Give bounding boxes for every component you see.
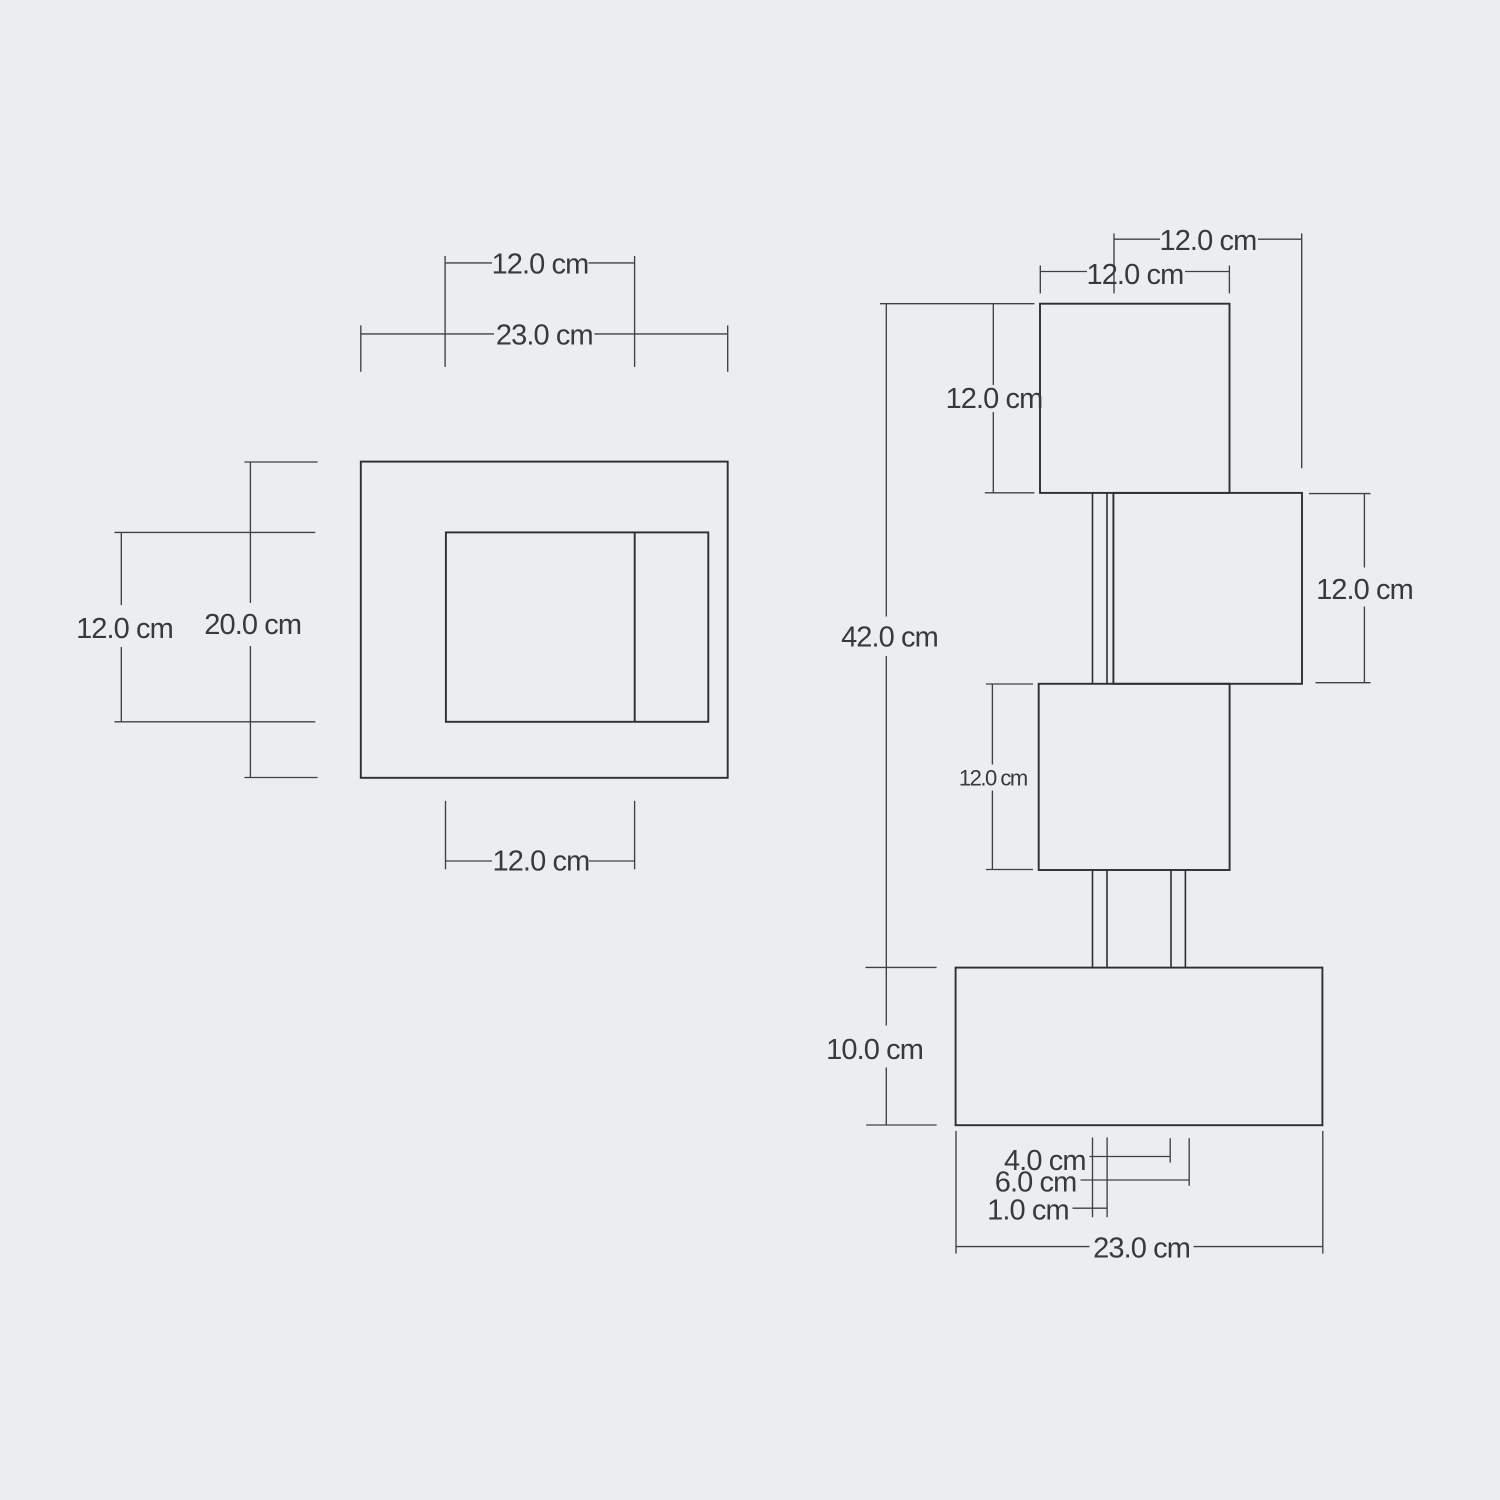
dim: box3 height 12.0 small [991,684,993,765]
svg-text:1.0 cm: 1.0 cm [987,1194,1069,1226]
dim: right top 12.0 (box2 width) [1114,238,1160,240]
svg-text:12.0 cm: 12.0 cm [492,248,589,280]
svg-text:12.0 cm: 12.0 cm [946,383,1043,415]
dim: left 20.0 vertical [249,462,251,603]
svg-text:23.0 cm: 23.0 cm [1093,1232,1190,1264]
dim: 6.0 [1081,1179,1190,1181]
svg-text:12.0 cm: 12.0 cm [959,766,1027,791]
extension lines of legs [1092,1137,1094,1217]
left view: inner rectangle [446,532,708,721]
dim: left 12.0 vertical [120,532,122,605]
dim: right 12.0 (box1 width) [1040,271,1087,273]
dim: left top 12.0 [445,262,492,264]
dim: box1 height 12.0 [992,304,994,385]
svg-text:23.0 cm: 23.0 cm [496,319,593,351]
svg-text:12.0 cm: 12.0 cm [1159,225,1256,257]
dim: 4.0 [1090,1156,1171,1158]
svg-text:12.0 cm: 12.0 cm [1316,574,1413,606]
svg-text:12.0 cm: 12.0 cm [76,613,173,645]
svg-text:12.0 cm: 12.0 cm [492,845,589,877]
left view: inner divider [634,532,636,721]
dim: left bottom 12.0 [446,860,493,862]
svg-text:10.0 cm: 10.0 cm [826,1034,923,1066]
left view: outer rectangle [361,462,728,778]
pole upper segment [1092,493,1094,684]
dim: 10.0 vertical [885,967,887,1025]
right view: base [956,968,1323,1126]
right view: box2 [1113,493,1302,684]
dim: 1.0 [1073,1207,1108,1209]
dim: left 23.0 [361,333,494,335]
left leg [1092,870,1094,968]
right leg [1170,870,1172,968]
right view: box1 [1040,304,1230,493]
svg-text:12.0 cm: 12.0 cm [1086,259,1183,291]
right view: box3 [1039,684,1230,870]
svg-text:42.0 cm: 42.0 cm [841,621,938,653]
svg-text:20.0 cm: 20.0 cm [204,609,301,641]
dim: bottom 23.0 [956,1246,1090,1248]
dim: 42.0 vertical [885,304,887,617]
dim: box2 right 12.0 [1363,494,1365,568]
